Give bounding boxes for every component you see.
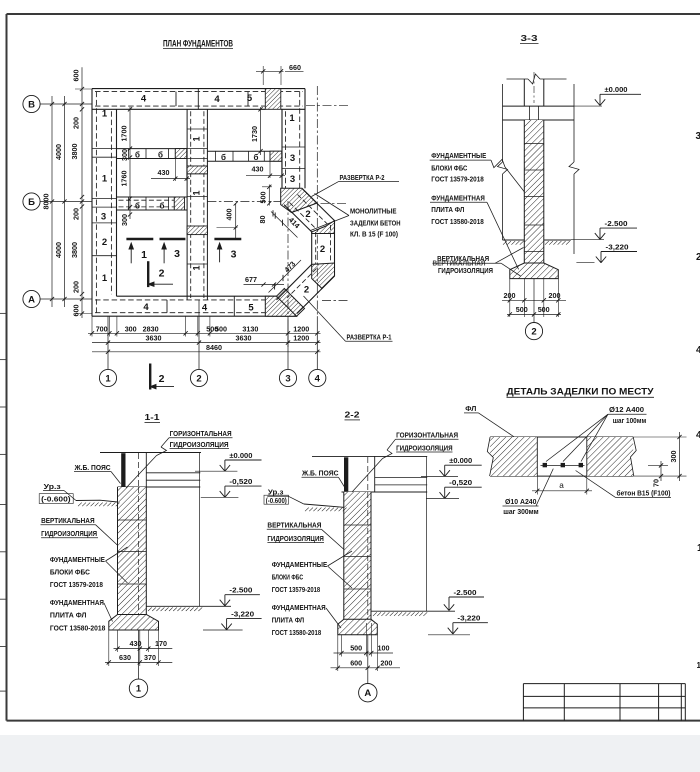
svg-text:400: 400 [225,209,234,221]
3-3 elevation +0.000 [595,99,600,105]
axis line 3 [287,316,289,369]
3-3 wall above slab [523,79,525,106]
svg-text:ГОСТ 13580-2018: ГОСТ 13580-2018 [50,624,106,633]
erker hatched bend block B [312,221,335,234]
svg-text:600: 600 [72,70,81,82]
svg-text:-0,520: -0,520 [229,477,252,486]
axis line 2 [198,300,200,370]
axis 4 dash-dot vertical [316,86,318,316]
2-2 foundation wall hatched [344,492,371,619]
erker hatched corner block A [281,188,317,212]
3-3 axis circle 2 [525,323,542,340]
section mark 1 cut line [126,238,153,240]
svg-text:б: б [158,150,163,159]
svg-text:-3,220: -3,220 [606,242,629,251]
svg-text:шаг 300мм: шаг 300мм [503,507,539,516]
section mark 2 bottom arrow [150,386,174,388]
430 right dim line [246,175,285,177]
3-3 footing ext lines [509,279,511,317]
svg-text:Ж.Б. ПОЯС: Ж.Б. ПОЯС [301,469,339,478]
1-1 foundation wall hatched [118,487,147,615]
svg-text:КЛ. В 15 (F 100): КЛ. В 15 (F 100) [350,230,398,239]
svg-text:1: 1 [102,109,108,120]
left wall block joints [92,148,117,150]
svg-text:5: 5 [248,303,254,314]
svg-text:1200: 1200 [293,334,309,343]
svg-text:500: 500 [215,324,227,333]
1-1 level stub -3.220 [203,629,243,631]
svg-text:3-3: 3-3 [521,33,538,43]
3-3 elevation -2.500 [595,233,600,239]
1-1 soil hatch right [148,607,152,611]
2-2 dim row2 [331,667,401,669]
svg-text:ГОСТ 13580-2018: ГОСТ 13580-2018 [431,217,484,226]
1-1 dim row2 [105,661,172,663]
svg-text:430: 430 [158,168,170,177]
detail 70 dim ext line [648,464,668,466]
svg-text:ФУНДАМЕНТНАЯ: ФУНДАМЕНТНАЯ [272,603,326,612]
W3 hatched block [174,197,184,210]
svg-text:2: 2 [320,244,325,255]
svg-text:1200: 1200 [293,324,309,333]
3-3 foundation wall hatched [524,120,544,263]
svg-text:200: 200 [549,291,561,300]
2-2 ground line left [304,504,344,507]
430 left dim line [151,178,190,180]
inner wall W3 along axis Б (left part) [117,196,188,198]
detail right break mark [631,437,637,476]
1-1 elevation -3.220 [221,624,226,630]
svg-text:1-1: 1-1 [145,412,160,422]
svg-text:3: 3 [231,249,237,261]
2-2 footing hatched [338,619,378,635]
svg-text:Ø10 А240: Ø10 А240 [505,497,537,506]
svg-text:-2.500: -2.500 [454,588,477,597]
erker hatched bend block C [312,263,335,289]
section mark 2 cut line (plan left) [147,261,149,287]
ext line top 600 [75,88,92,90]
svg-text:200: 200 [72,281,81,293]
detail left hatched block [490,437,537,476]
section mark 3a cut line [160,238,186,240]
svg-text:3: 3 [695,131,700,142]
detail dim line a [532,490,592,492]
svg-text:ПЛИТА ФЛ: ПЛИТА ФЛ [272,616,305,625]
660 dim ext lines [262,66,264,85]
axis circle 1 [99,369,116,386]
svg-text:4: 4 [315,373,321,384]
svg-text:300: 300 [120,214,129,226]
W1 left hatched block [175,149,186,159]
3-3 dim row2 [507,313,561,315]
svg-text:100: 100 [378,644,390,653]
2-2 elevation -3.220 [448,628,453,634]
svg-text:200: 200 [72,117,81,129]
svg-text:1: 1 [105,373,111,384]
svg-text:1: 1 [192,190,202,195]
axis line 1 [107,316,109,369]
svg-text:4: 4 [141,94,147,105]
3-3 leader from ВЕРТИКАЛЬНАЯ [433,262,502,264]
2-2 floor top line [312,455,427,457]
2-2 leader ВЕРТИКАЛЬНАЯ [322,529,344,549]
2-2 axis circle А [359,684,377,702]
section mark 2 arrow [148,283,173,285]
svg-text:ЗАДЕЛКИ БЕТОН: ЗАДЕЛКИ БЕТОН [350,218,401,227]
svg-text:±0.000: ±0.000 [449,456,472,465]
svg-text:600: 600 [72,305,81,317]
2-2 dim row1 [334,652,394,654]
2-2 soil hatch right [373,612,377,616]
svg-text:ГОРИЗОНТАЛЬНАЯ: ГОРИЗОНТАЛЬНАЯ [396,430,458,439]
svg-text:500: 500 [258,192,267,204]
section mark 1 arrow [130,244,132,264]
svg-text:1: 1 [102,174,108,185]
2-2 level stub -3.220 [428,634,470,636]
W1 right hatched block [270,151,282,161]
svg-text:ДЕТАЛЬ ЗАДЕЛКИ ПО МЕСТУ: ДЕТАЛЬ ЗАДЕЛКИ ПО МЕСТУ [507,387,654,397]
detail 300 dim ext lines [633,436,686,438]
svg-text:ГОРИЗОНТАЛЬНАЯ: ГОРИЗОНТАЛЬНАЯ [170,429,232,438]
2-2 elevation -0.520 [426,497,459,499]
svg-text:ПЛАН ФУНДАМЕНТОВ: ПЛАН ФУНДАМЕНТОВ [163,39,233,49]
bottom dim row1 [88,332,321,334]
2-2 leader from ГОРИЗОНТАЛЬНАЯ [387,439,396,450]
bottom dim row2 [92,342,321,344]
svg-text:Б: Б [28,197,35,208]
W2 hatched block at axis Б [187,226,207,235]
3-3 footing hatched [510,263,559,279]
sheet frame [7,13,700,15]
1-1 axis line to circle [138,630,140,679]
1-1 leaders ФУНДАМЕНТНЫЕ [106,547,128,561]
473 dim line diagonal [269,260,302,293]
svg-text:2: 2 [305,209,310,220]
ext line bottom [75,313,92,315]
svg-text:БЛОКИ ФБС: БЛОКИ ФБС [272,573,304,582]
1-1 soil hatch left [78,503,82,507]
svg-text:-0,520: -0,520 [449,478,472,487]
svg-text:3800: 3800 [70,242,79,258]
1-1 elevation ±0.000 [195,470,237,472]
svg-text:700: 700 [96,324,108,333]
left 4000 dim line [64,96,66,307]
svg-text:2830: 2830 [143,324,159,333]
svg-text:ВЕРТИКАЛЬНАЯ: ВЕРТИКАЛЬНАЯ [41,516,95,525]
leader lines to monolith blocks [315,194,350,216]
svg-text:600: 600 [350,658,362,667]
erker dashed wall faces vertical [330,225,332,272]
svg-text:3: 3 [285,373,290,384]
svg-text:630: 630 [119,653,131,662]
svg-text:1: 1 [192,136,202,141]
2-2 floor lines right [375,477,428,479]
right wall block joints [282,146,305,148]
svg-text:660: 660 [289,63,301,72]
erker vertical wall outer edge [334,221,336,276]
677 dim line [244,284,285,286]
svg-text:5: 5 [247,93,253,104]
svg-text:3: 3 [174,248,180,260]
svg-text:2: 2 [304,285,309,296]
axis circle 2 [190,369,207,386]
axis А dash-dot extension right [322,300,349,302]
1-1 axis dashed in wall [138,487,140,620]
inner wall W1 right (horizontal) [207,150,282,152]
1-1 wall block joints [118,519,147,521]
svg-text:±0.000: ±0.000 [229,451,252,460]
svg-text:-3,220: -3,220 [457,614,480,623]
svg-text:ГИДРОИЗОЛЯЦИЯ: ГИДРОИЗОЛЯЦИЯ [267,534,324,543]
svg-text:б: б [160,201,165,210]
left 8000 dim line [51,96,53,307]
svg-text:8460: 8460 [206,343,222,352]
detail beam bottom line [490,475,633,477]
2-2 wall block joints [344,524,371,526]
414 dim line diagonal [271,212,298,238]
axis circle Б [23,193,40,210]
1-1 floor top line [100,452,201,454]
3-3 soil hatch [503,241,507,245]
1-1 wall top line [118,486,201,488]
erker outer diagonal wall edge upper [302,189,335,221]
660 dim line [256,70,284,72]
axis line В [40,103,92,105]
svg-text:ГОСТ 13579-2018: ГОСТ 13579-2018 [50,580,103,589]
svg-text:б: б [254,153,259,162]
erker inner diagonal wall edge lower [277,264,312,299]
svg-text:ГИДРОИЗОЛЯЦИЯ: ГИДРОИЗОЛЯЦИЯ [170,440,229,449]
inner dim line 1700/300/1760/300 [129,107,131,219]
3-3 leader from ФУНДАМЕНТНЫЕ [430,159,491,161]
svg-text:ФУНДАМЕНТНАЯ: ФУНДАМЕНТНАЯ [431,193,485,202]
detail rebar dots [543,463,547,467]
3-3 floor slab [503,105,575,107]
3-3 wall block joints [524,143,544,145]
dim line 1730 [260,107,262,155]
central wall W2 (vertical) [186,109,188,300]
svg-text:4000: 4000 [54,242,63,258]
svg-text:ФЛ: ФЛ [465,404,476,413]
detail rebar bottom bar [541,464,585,466]
svg-text:2: 2 [531,327,536,338]
svg-text:1: 1 [697,661,700,670]
2-2 axis dashed in upper wall [367,457,369,492]
1-1 vertical ext line [199,453,201,607]
svg-text:В: В [28,99,35,110]
erker inner diagonal wall edge upper [284,205,312,232]
svg-text:200: 200 [504,291,516,300]
axis circle В [23,95,40,112]
left wall footing strip [91,89,93,317]
detail beam top line [490,436,633,438]
svg-text:2: 2 [102,237,107,248]
2-2 leaders ФУНДАМЕНТНЫЕ [328,551,353,566]
svg-text:a: a [559,481,564,490]
monolith hatched block bottom wall (erker junction) [265,296,296,316]
svg-text:ФУНДАМЕНТНЫЕ: ФУНДАМЕНТНЫЕ [431,151,486,160]
svg-text:ГИДРОИЗОЛЯЦИЯ: ГИДРОИЗОЛЯЦИЯ [396,443,453,452]
1-1 floor lines right [146,472,200,474]
svg-text:б: б [135,201,140,210]
svg-text:ФУНДАМЕНТНЫЕ: ФУНДАМЕНТНЫЕ [50,555,105,564]
right wall footing strip [304,89,306,189]
1-1 leader ВЕРТИКАЛЬНАЯ [96,525,118,545]
svg-text:200: 200 [380,658,392,667]
svg-text:430: 430 [252,165,264,174]
3-3 axis line [533,279,535,323]
svg-text:70: 70 [652,479,661,487]
left frame tick marks [0,312,7,314]
svg-text:ГОСТ 13579-2018: ГОСТ 13579-2018 [272,585,321,594]
svg-text:ГИДРОИЗОЛЯЦИЯ: ГИДРОИЗОЛЯЦИЯ [41,529,97,538]
400 ext line [217,227,238,229]
2-2 dim ext lines below [337,635,339,671]
axis 4 dash-dot horizontal at top [306,104,349,106]
3-3 wall axis dash-dot [533,72,535,103]
1-1 ground line left [76,500,118,502]
svg-text:1: 1 [289,113,295,124]
svg-text:А: А [364,688,371,699]
svg-text:3630: 3630 [146,334,162,343]
3-3 elevation -3.220 [596,257,601,263]
svg-text:-2.500: -2.500 [605,219,628,228]
430 right ext lines [269,161,271,178]
svg-text:3: 3 [290,153,295,164]
svg-text:80: 80 [258,216,267,224]
2-2 axis dashed in wall [367,492,369,624]
svg-text:БЛОКИ ФБС: БЛОКИ ФБС [50,567,91,576]
svg-text:500: 500 [350,644,362,653]
W2 block joints [187,128,207,130]
2-2 ЖБ пояс black bar [344,457,348,491]
svg-text:4: 4 [143,302,149,313]
svg-text:1: 1 [136,684,142,695]
svg-text:3: 3 [290,174,295,185]
title block table [523,683,685,685]
svg-text:4: 4 [696,345,700,356]
erker outer diagonal wall edge lower [297,276,335,314]
svg-text:2: 2 [696,252,700,263]
bottom dim row3 [92,351,321,353]
2-2 upper wall lines [374,456,376,492]
2-2 leader Ур.з [289,496,304,504]
svg-text:РАЗВЕРТКА Р-2: РАЗВЕРТКА Р-2 [340,173,385,182]
svg-text:4: 4 [214,94,220,105]
svg-text:677: 677 [245,275,257,284]
1-1 dim ext lines below [108,630,110,666]
top wall footing strip [92,88,305,90]
2-2 soil hatch left [305,508,309,512]
axis Б dash-dot inside plan [207,201,281,203]
svg-text:2: 2 [159,268,165,280]
500 dim line erker [268,185,270,206]
svg-text:бетон В15 (F100): бетон В15 (F100) [617,489,672,498]
500 ext line [262,186,272,188]
axis line Б [40,201,92,203]
1-1 footing hatched [109,615,159,631]
svg-text:БЛОКИ ФБС: БЛОКИ ФБС [431,163,468,172]
detail dim a ext lines [536,476,538,494]
section mark 2 bottom cut line [149,364,151,390]
svg-text:-3,220: -3,220 [231,609,254,618]
axis Б dash-dot extension right of erker [321,202,349,204]
section 3-3 right break line vertical [573,84,575,162]
svg-text:±0.000: ±0.000 [605,85,628,94]
axis circle А [23,290,40,307]
3-3 ground line [503,239,525,241]
svg-text:ФУНДАМЕНТНЫЕ: ФУНДАМЕНТНЫЕ [272,560,328,569]
svg-text:4: 4 [202,303,208,314]
section 3-3 top break line [507,78,529,80]
svg-text:2-2: 2-2 [345,410,360,420]
erker dashed wall faces upper diagonal [298,195,328,225]
detail left break mark [487,437,493,476]
section 3-3 left break line vertical [502,84,504,162]
detail leaders to rebar dots [546,414,608,461]
2-2 axis line to circle [367,635,369,684]
svg-text:Ж.Б. ПОЯС: Ж.Б. ПОЯС [74,463,112,472]
section mark 3b cut line [214,238,241,240]
axis line А [40,298,92,300]
detail 70 dim line [660,461,662,481]
2-2 leader ФУНДАМЕНТНАЯ [326,608,341,628]
svg-text:3630: 3630 [236,334,252,343]
svg-text:б: б [135,150,140,159]
svg-text:430: 430 [130,639,142,648]
3-3 leader from ФУНДАМЕНТНАЯ [430,201,487,203]
2-2 ground line right (-2.500) [371,610,455,612]
svg-text:3: 3 [101,212,106,223]
svg-text:4: 4 [696,430,700,441]
svg-text:500: 500 [538,305,550,314]
top wall block joints [175,92,177,107]
detail 300 dim line [679,432,681,481]
svg-text:3130: 3130 [242,324,258,333]
430 left ext lines [174,159,176,182]
svg-text:8000: 8000 [42,194,51,210]
svg-text:200: 200 [72,208,81,220]
1-1 elevation -2.500 [220,600,225,606]
svg-text:б: б [221,153,226,162]
svg-text:3800: 3800 [70,144,79,160]
svg-text:ГИДРОИЗОЛЯЦИЯ: ГИДРОИЗОЛЯЦИЯ [438,266,493,275]
1-1 leader ФУНДАМЕНТНАЯ [104,603,113,622]
1-1 elevation -0.520 [201,496,239,498]
detail right hatched block [587,437,633,476]
monolith hatched block top wall [265,89,281,110]
2-2 vertical ext line [426,456,428,611]
erker vertical wall inner edge [311,232,313,265]
1-1 upper wall lines [145,453,147,488]
axis circle 4 [309,369,326,386]
svg-text:(-0.600): (-0.600) [41,494,71,503]
svg-text:170: 170 [155,639,167,648]
svg-text:ПЛИТА ФЛ: ПЛИТА ФЛ [50,611,87,620]
svg-text:ГОСТ 13580-2018: ГОСТ 13580-2018 [272,628,322,637]
svg-text:ФУНДАМЕНТНАЯ: ФУНДАМЕНТНАЯ [50,598,104,607]
svg-text:Ур.з: Ур.з [44,482,61,491]
svg-text:1: 1 [141,249,147,261]
svg-text:1730: 1730 [250,126,259,142]
svg-text:1: 1 [192,265,202,270]
2-2 elevation -2.500 [444,604,449,610]
svg-text:1700: 1700 [120,126,129,142]
3-3 slab top line extension to elevation [574,105,602,107]
bottom wall footing strip [92,315,297,317]
svg-text:Ø12 А400: Ø12 А400 [609,405,644,414]
1-1 leader Ур.з [64,491,76,501]
